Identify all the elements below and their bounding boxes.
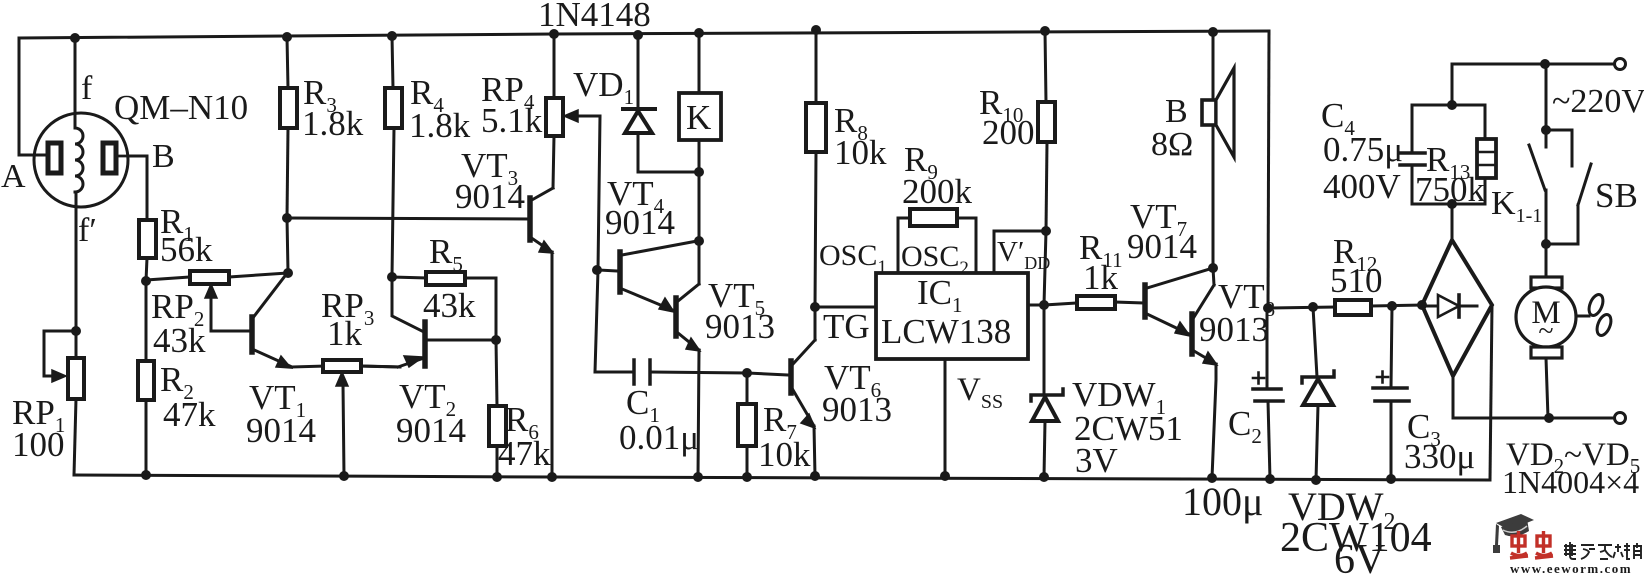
node RP4 wiper VT4 base: [592, 265, 602, 275]
svg-text:f: f: [81, 70, 93, 107]
svg-text:QM–N10: QM–N10: [114, 88, 248, 127]
switch K1-1: [1529, 64, 1546, 244]
wire VD1 to K column: [638, 171, 699, 174]
capacitor C4 and resistor R13 parallel branch: [1400, 105, 1496, 204]
wire C1 to VT6 base: [747, 373, 789, 375]
svg-text:9013: 9013: [1199, 310, 1269, 349]
svg-text:1N4148: 1N4148: [538, 0, 651, 34]
wire TG node to IC1: [815, 306, 876, 309]
switch SB: [1546, 130, 1591, 244]
wire left drop to sensor terminal A: [19, 38, 46, 155]
node K1-1 bottom: [1541, 239, 1551, 249]
capacitor C1: [595, 360, 747, 384]
node ground R6: [492, 472, 502, 482]
transistor VT7: [1145, 268, 1213, 336]
svg-text:100μ: 100μ: [1182, 479, 1263, 524]
resistor R3: [280, 37, 297, 218]
resistor R5: [392, 272, 496, 339]
node ground VDW2: [1311, 475, 1321, 485]
wire heater f-prime down to RP1: [75, 194, 78, 331]
svg-text:400V: 400V: [1323, 167, 1401, 206]
motor M: [1516, 244, 1576, 418]
wire R1 to node: [146, 258, 147, 281]
svg-text:B: B: [152, 138, 175, 175]
node ground VSS: [940, 471, 950, 481]
wire ground rail: [74, 475, 1490, 480]
wire 220V live top: [1452, 64, 1614, 105]
watermark red character 1: [1510, 531, 1528, 558]
diode VD1: [623, 35, 655, 172]
svg-text:OSC1: OSC1: [819, 239, 887, 278]
node ground VT5: [693, 472, 703, 482]
potentiometer RP3: [323, 360, 400, 476]
wire bridge bottom to AC return: [1453, 376, 1614, 418]
potentiometer RP4: [546, 34, 600, 188]
svg-text:100: 100: [12, 425, 65, 464]
svg-text:56k: 56k: [160, 230, 213, 269]
wire VT6 collector up to TG node: [814, 307, 817, 340]
node RP2 VT1 collector: [283, 268, 293, 278]
node ground VDW1: [1039, 472, 1049, 482]
transistor VT8: [1192, 285, 1217, 478]
svg-text:VD1: VD1: [573, 65, 634, 109]
transistor VT6: [791, 340, 815, 476]
transistor VT5: [676, 284, 700, 477]
svg-text:47k: 47k: [163, 395, 216, 434]
svg-text:9014: 9014: [605, 203, 675, 242]
node top rail RP4: [549, 29, 559, 39]
node ground R7: [742, 472, 752, 482]
resistor R6: [489, 340, 506, 477]
wire VT7 collector node down to VT8 collector: [1213, 268, 1214, 285]
node motor bottom: [1544, 413, 1554, 423]
node VDW2 top: [1308, 302, 1318, 312]
node top rail speaker: [1208, 27, 1218, 37]
svg-text:9013: 9013: [705, 307, 775, 346]
svg-text:LCW138: LCW138: [881, 312, 1011, 351]
wire sensor B to R1: [128, 156, 147, 220]
node R10 R11 IC: [1039, 300, 1049, 310]
svg-text:1k: 1k: [1083, 258, 1119, 297]
wire RP4 wiper down to VT4 base and C1: [595, 116, 600, 372]
node top rail K: [694, 28, 704, 38]
node top rail VD1: [633, 30, 643, 40]
bridge rectifier VD2-VD5: [1422, 240, 1492, 376]
node top rail R8: [811, 25, 821, 35]
wire VT1 collector up to base line: [287, 218, 288, 272]
node ground VT8: [1207, 473, 1217, 483]
svg-text:8Ω: 8Ω: [1151, 126, 1193, 163]
gas sensor QM-N10: [34, 113, 131, 207]
svg-text:330μ: 330μ: [1404, 437, 1475, 476]
svg-text:5.1k: 5.1k: [481, 101, 543, 140]
pin box VDD: [994, 231, 1046, 273]
node TG: [810, 302, 820, 312]
wire K/VD1 down to VT4 collector: [698, 172, 701, 284]
terminal AC top: [1615, 59, 1626, 70]
svg-text:3V: 3V: [1075, 441, 1118, 480]
svg-text:www.eeworm.com: www.eeworm.com: [1510, 561, 1632, 574]
svg-text:~: ~: [1538, 316, 1553, 347]
capacitor C2: [1253, 308, 1283, 479]
svg-text:9013: 9013: [822, 390, 892, 429]
resistor R12: [1335, 300, 1371, 315]
node base line R3 VT1: [282, 213, 292, 223]
node ground R2: [141, 470, 151, 480]
svg-text:200: 200: [982, 113, 1035, 152]
node VT2 collector R5 R6: [491, 335, 501, 345]
node C4 R13 bottom: [1447, 199, 1457, 209]
svg-text:9014: 9014: [246, 411, 316, 450]
svg-text:0.01μ: 0.01μ: [619, 418, 699, 457]
svg-text:9014: 9014: [1127, 227, 1197, 266]
svg-text:TG: TG: [823, 307, 870, 346]
svg-text:VSS: VSS: [957, 372, 1003, 413]
svg-text:6V: 6V: [1334, 537, 1385, 574]
node C2 supply: [1263, 303, 1273, 313]
svg-text:1.8k: 1.8k: [302, 104, 364, 143]
svg-text:750k: 750k: [1415, 170, 1486, 209]
op-amp/IC U1 LCW138: [876, 273, 1044, 476]
resistor R10: [1038, 31, 1055, 305]
transistor VT2: [361, 277, 496, 367]
svg-text:43k: 43k: [153, 321, 206, 360]
node C1 R7 VT6 base: [742, 368, 752, 378]
node R1 RP2 R2: [141, 276, 151, 286]
node top rail R10: [1040, 26, 1050, 36]
svg-text:1N4004×4: 1N4004×4: [1502, 464, 1639, 500]
svg-text:R5: R5: [429, 232, 463, 276]
svg-text:C2: C2: [1228, 404, 1262, 448]
node 220V live: [1540, 59, 1550, 69]
node VT4 collector: [694, 236, 704, 246]
node top rail R3: [282, 32, 292, 42]
resistor R8: [806, 30, 826, 307]
svg-text:1.8k: 1.8k: [409, 106, 471, 145]
node RP1 top: [71, 326, 81, 336]
resistor R7: [738, 373, 756, 477]
node C3 top: [1387, 301, 1397, 311]
potentiometer RP1: [44, 331, 84, 475]
svg-text:0.75μ: 0.75μ: [1323, 130, 1403, 169]
svg-text:V′DD: V′DD: [997, 236, 1050, 273]
transistor VT3: [530, 188, 553, 477]
svg-text:47k: 47k: [498, 434, 551, 473]
node ground VT6: [810, 471, 820, 481]
wire R12 to bridge left vertex: [1371, 305, 1422, 306]
speaker B: [1202, 32, 1234, 268]
wire heater f from top rail: [74, 38, 77, 127]
wire bridge right vertex to ground rail: [1490, 305, 1492, 480]
svg-text:B: B: [1165, 93, 1188, 130]
watermark eeworm logo: [1493, 514, 1534, 553]
svg-text:9014: 9014: [396, 411, 466, 450]
svg-text:200k: 200k: [902, 172, 973, 211]
node K1-1 top: [1541, 125, 1551, 135]
watermark site name: [1564, 542, 1642, 559]
watermark red character 2: [1535, 531, 1553, 558]
node VDD R10: [1041, 226, 1051, 236]
node ground VT3: [547, 472, 557, 482]
transistor VT1: [252, 272, 292, 368]
fan blades: [1576, 293, 1614, 338]
transistor VT4: [598, 241, 697, 312]
resistor R4: [385, 36, 402, 277]
resistor R9: [898, 209, 976, 273]
wire top rail right drop to C2 node: [1268, 31, 1269, 308]
zener diode VDW1: [1031, 305, 1063, 477]
node R4 R5 VT2 base: [387, 272, 397, 282]
node top rail f: [70, 33, 80, 43]
wire base line to VT3: [287, 218, 530, 219]
svg-text:f′: f′: [78, 212, 97, 249]
svg-text:A: A: [1, 158, 26, 195]
wire C4/R13 to bridge top vertex: [1451, 204, 1454, 240]
node ground RP3: [339, 471, 349, 481]
svg-text:1k: 1k: [327, 314, 363, 353]
node ground C3: [1386, 474, 1396, 484]
resistor R11: [1044, 296, 1143, 309]
node top rail R4: [387, 31, 397, 41]
svg-text:SB: SB: [1595, 176, 1638, 215]
svg-text:43k: 43k: [423, 286, 476, 325]
node ground C2: [1265, 474, 1275, 484]
wire VT1 emitter to RP3: [292, 366, 325, 367]
resistor R2: [138, 281, 154, 475]
potentiometer RP2: [146, 271, 288, 331]
resistor R1: [139, 220, 156, 258]
zener diode VDW2: [1302, 307, 1334, 480]
node VD1 K junction: [694, 167, 704, 177]
svg-text:K1-1: K1-1: [1491, 185, 1542, 227]
svg-text:~220V: ~220V: [1552, 83, 1644, 120]
svg-text:510: 510: [1330, 261, 1383, 300]
node bridge left vertex: [1417, 300, 1427, 310]
node C4 R13 top: [1447, 100, 1457, 110]
capacitor C3: [1373, 306, 1409, 479]
wire supply node to R12: [1268, 307, 1335, 308]
svg-text:10k: 10k: [758, 435, 811, 474]
svg-text:10k: 10k: [834, 133, 887, 172]
terminal AC bottom: [1615, 413, 1626, 424]
svg-text:K: K: [686, 98, 711, 137]
svg-text:9014: 9014: [455, 177, 525, 216]
node VT7 collector speaker: [1208, 263, 1218, 273]
wire top supply rail: [19, 31, 1269, 38]
relay K: [679, 33, 721, 172]
